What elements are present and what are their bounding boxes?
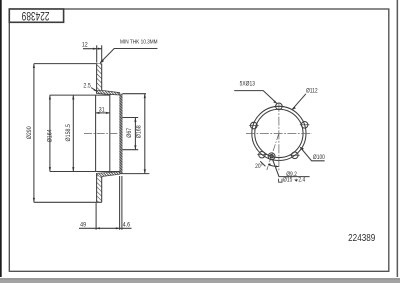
- hat outer ext line right (dia168 top): [122, 93, 146, 95]
- svg-text:20°: 20°: [255, 164, 262, 171]
- friction ring bottom (hatched): [97, 176, 102, 202]
- 5X dia13 arrow: [273, 101, 277, 104]
- dia290 arrows: [33, 64, 35, 68]
- dia168 dimension line: [144, 94, 146, 174]
- svg-text:Ø112: Ø112: [306, 88, 318, 95]
- screw hole dia9.2 inner: [270, 155, 273, 158]
- bolt hole upper left: [249, 122, 259, 129]
- 12 dim arrows: [93, 48, 97, 50]
- svg-text:4.6: 4.6: [123, 222, 130, 228]
- bolt hole upper right: [300, 122, 310, 129]
- screw hole dia15 outer: [268, 153, 275, 160]
- left edge black bar: [0, 0, 2, 277]
- horizontal centerline: [246, 132, 312, 134]
- svg-text:2.5: 2.5: [83, 83, 90, 89]
- 5X dia13 leader: [234, 91, 276, 103]
- bore bottom edge: [122, 149, 138, 151]
- dia158.5 arrows: [72, 95, 74, 99]
- svg-text:224389: 224389: [348, 232, 375, 243]
- 20 deg text leader: [260, 161, 265, 166]
- wall bottom ext line (dia168 bottom): [120, 173, 150, 175]
- 31 dim line: [96, 112, 110, 114]
- disc top edge + extension line: [34, 63, 102, 65]
- dia112 leader: [292, 94, 306, 109]
- svg-text:49: 49: [80, 222, 86, 228]
- 49 dim arrows: [96, 227, 100, 229]
- 12 dim extension lines: [96, 45, 98, 62]
- min thk leader: [100, 49, 157, 63]
- 49/4.6 wall ext lines: [119, 176, 121, 230]
- bottom grey bar top edge: [0, 278, 400, 280]
- radial line to screw hole (110deg): [267, 133, 279, 170]
- vertical centerline: [278, 103, 280, 170]
- depth symbol: [295, 179, 298, 181]
- dia67 arrows: [134, 118, 136, 122]
- svg-text:31: 31: [99, 107, 105, 113]
- svg-text:Ø168: Ø168: [136, 125, 142, 138]
- dia290 dimension line: [33, 64, 35, 203]
- step face edge: [109, 95, 111, 171]
- screw hole leader: [273, 160, 310, 177]
- svg-text:224389: 224389: [22, 9, 50, 23]
- circle dia100: [255, 109, 303, 157]
- bore top edge: [122, 117, 138, 119]
- svg-text:Ø290: Ø290: [27, 126, 33, 139]
- step edge: [109, 93, 111, 96]
- ring top right face: [101, 64, 103, 91]
- svg-text:Ø15: Ø15: [283, 177, 292, 184]
- 12 dim line: [83, 48, 102, 50]
- dia158.5 dimension line: [72, 95, 74, 171]
- hub mounting wall (hatched dark): [119, 94, 122, 174]
- arrowheads: [33, 48, 304, 230]
- 31 dim arrows: [96, 112, 100, 114]
- 20 deg arc arrows: [276, 166, 279, 168]
- bolt hole lower right: [290, 152, 300, 159]
- disc bottom edge + extension: [34, 201, 102, 203]
- center axis line: [84, 133, 119, 135]
- dimension texts: [27, 39, 325, 229]
- bolt hole lower left: [257, 152, 266, 158]
- svg-text:12: 12: [82, 42, 88, 48]
- svg-text:Ø67: Ø67: [127, 128, 133, 138]
- 20 deg arc: [268, 165, 278, 167]
- dia164 arrows: [49, 95, 51, 99]
- bottom band ext line (dia164 bottom): [50, 171, 120, 173]
- ring inner face edge: [95, 95, 97, 171]
- 2.5 leader: [91, 88, 96, 91]
- bottom grey bar: [0, 279, 400, 283]
- right edge dark bar: [397, 0, 399, 277]
- friction ring top (hatched): [97, 64, 102, 91]
- dia112 arrow: [292, 107, 296, 111]
- dia164 dimension line: [49, 95, 51, 171]
- bolt circle dia112: [252, 106, 306, 160]
- 49/4.6 dim line: [79, 227, 132, 229]
- svg-text:Ø100: Ø100: [313, 154, 325, 161]
- 2.5 leader arrow: [94, 89, 97, 91]
- dia168 arrows: [144, 94, 146, 98]
- svg-text:MIN THK 10.3MM: MIN THK 10.3MM: [120, 39, 158, 46]
- dia100 leader: [300, 147, 324, 160]
- counterbore symbol: [279, 179, 282, 183]
- dia100 arrow: [300, 147, 304, 150]
- svg-text:5XØ13: 5XØ13: [240, 81, 255, 88]
- min thk leader arrow: [100, 59, 104, 63]
- dia67 dimension line: [134, 118, 136, 150]
- hat bottom band (hatched): [97, 172, 120, 177]
- ring bottom right face: [101, 176, 103, 202]
- ring top left face: [96, 64, 98, 94]
- hat top band (hatched): [97, 90, 120, 95]
- title box top-left: [9, 9, 63, 22]
- svg-text:Ø158.5: Ø158.5: [66, 124, 72, 141]
- bolt hole top: [274, 103, 284, 110]
- svg-text:Ø164: Ø164: [47, 129, 53, 143]
- svg-text:2.4: 2.4: [298, 177, 305, 184]
- register line (ext for dia164/158.5): [50, 94, 110, 96]
- ring bottom left face: [96, 173, 98, 202]
- 49 dim left ext line: [95, 203, 97, 230]
